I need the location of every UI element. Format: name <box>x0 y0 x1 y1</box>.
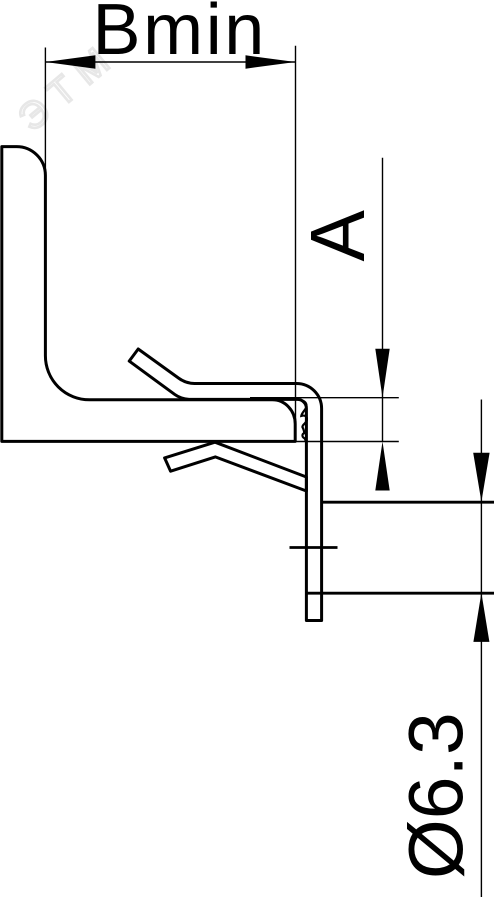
svg-text:Bmin: Bmin <box>93 0 267 70</box>
svg-text:A: A <box>295 209 381 261</box>
svg-text:Ø6.3: Ø6.3 <box>394 712 480 879</box>
